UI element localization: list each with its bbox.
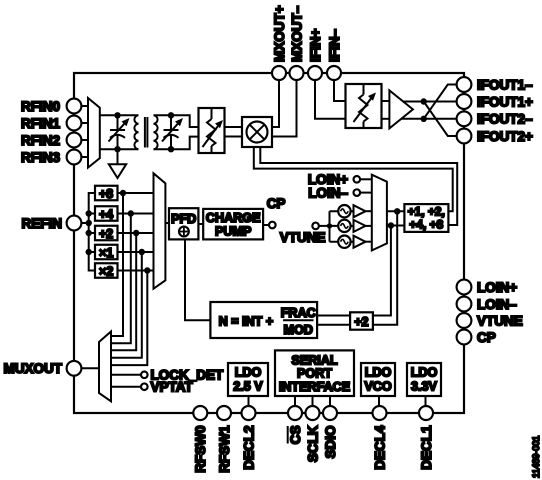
IF attenuator box bbox=[346, 84, 382, 128]
mux LO select bbox=[372, 175, 387, 251]
svg-text:CHARGE: CHARGE bbox=[206, 211, 261, 225]
svg-text:IFOUT2+: IFOUT2+ bbox=[477, 129, 533, 144]
wire PFD to CP bbox=[198, 223, 203, 225]
svg-text:RFIN2: RFIN2 bbox=[21, 133, 60, 148]
node div4 out bbox=[128, 210, 134, 216]
svg-text:RFIN3: RFIN3 bbox=[21, 150, 60, 165]
svg-text:DECL4: DECL4 bbox=[372, 425, 387, 470]
transformer T1 bbox=[134, 115, 157, 149]
divider ref /8 box bbox=[95, 186, 118, 201]
pin IFOUT1- bbox=[457, 77, 533, 92]
wire x2 out bbox=[111, 271, 154, 366]
pin IFIN+ bbox=[308, 29, 323, 80]
svg-text:÷2: ÷2 bbox=[99, 227, 113, 241]
serial port interface box bbox=[275, 350, 354, 406]
svg-text:RFIN0: RFIN0 bbox=[21, 99, 60, 114]
wire MXOUT- to mixer output bbox=[272, 80, 297, 137]
pin IFOUT2+ bbox=[457, 129, 533, 144]
oscillator VCO1 bbox=[338, 205, 350, 217]
chip boundary bbox=[74, 73, 464, 413]
wire REFIN stub div2 bbox=[89, 232, 95, 234]
wire tank2 top rail bbox=[154, 115, 199, 127]
divider LO box bbox=[404, 204, 448, 232]
svg-text:LOIN–: LOIN– bbox=[308, 185, 348, 200]
svg-text:IFIN–: IFIN– bbox=[327, 29, 342, 62]
ground bbox=[109, 149, 126, 178]
pin DECL1 bbox=[419, 406, 434, 470]
mux MUXOUT select bbox=[99, 332, 111, 402]
pin RFIN0 bbox=[21, 99, 81, 114]
oscillator VCO2 bbox=[338, 220, 350, 232]
node bus div4 bbox=[86, 210, 92, 216]
svg-text:VTUNE: VTUNE bbox=[477, 313, 523, 328]
node CP internal bbox=[263, 196, 285, 228]
wire RFIN0 stub bbox=[81, 105, 88, 107]
wire cross to IFOUT1- bbox=[424, 85, 457, 119]
svg-text:VPTAT: VPTAT bbox=[151, 380, 194, 395]
oscillator VCO3 bbox=[338, 236, 350, 248]
node x1 out bbox=[139, 249, 145, 255]
wire IF att to amp lower bbox=[382, 118, 390, 120]
node LO out upper bbox=[394, 208, 400, 214]
node VTUNE junction bbox=[327, 223, 332, 228]
svg-text:PFD: PFD bbox=[171, 212, 196, 226]
svg-text:÷1, ÷2,: ÷1, ÷2, bbox=[408, 204, 445, 218]
svg-text:MOD: MOD bbox=[284, 323, 313, 337]
pin IFIN- bbox=[327, 29, 342, 80]
node VTUNE internal bbox=[280, 223, 330, 245]
wire REFIN stub div4 bbox=[89, 213, 95, 215]
node bus x1 bbox=[86, 249, 92, 255]
node div8 out bbox=[120, 190, 126, 196]
wire attenuator to mixer lower bbox=[225, 136, 243, 138]
node LOCK_DET bbox=[111, 368, 224, 383]
node LOIN- internal bbox=[308, 185, 372, 200]
svg-text:RFSW1: RFSW1 bbox=[217, 425, 232, 473]
svg-text:PUMP: PUMP bbox=[215, 224, 251, 238]
wire REFIN bus bbox=[89, 193, 95, 271]
wire tank1 top rail bbox=[100, 114, 139, 116]
divider ref /2 box bbox=[95, 226, 118, 241]
svg-text:÷4: ÷4 bbox=[99, 207, 113, 221]
pin LOIN+ right bbox=[457, 280, 518, 295]
pin RFIN3 bbox=[21, 150, 81, 165]
LDO 2.5V box bbox=[228, 363, 268, 406]
pin RFSW0 bbox=[193, 406, 208, 473]
wire VTUNE bus bbox=[329, 211, 331, 242]
svg-text:IFOUT1–: IFOUT1– bbox=[477, 77, 533, 92]
wire attenuator to mixer upper bbox=[225, 126, 243, 128]
svg-text:SDIO: SDIO bbox=[323, 426, 338, 459]
svg-text:2.5 V: 2.5 V bbox=[233, 380, 263, 394]
pin SDIO bbox=[323, 406, 338, 459]
wire to div2 upper bbox=[373, 211, 397, 324]
node tank2 top bbox=[168, 112, 174, 118]
node VPTAT bbox=[111, 380, 194, 395]
svg-text:SCLK: SCLK bbox=[305, 425, 320, 462]
wire div2 out bbox=[111, 233, 154, 350]
svg-text:×2: ×2 bbox=[99, 264, 113, 278]
amplifier A1 bbox=[389, 90, 413, 128]
svg-text:3.3V: 3.3V bbox=[411, 380, 438, 394]
wire to div2 lower bbox=[373, 226, 391, 316]
N divider box bbox=[210, 302, 317, 338]
buffer B3 bbox=[351, 236, 372, 248]
varactor C2 tank2 bbox=[162, 115, 183, 149]
svg-text:DECL1: DECL1 bbox=[419, 425, 434, 470]
svg-text:N = INT +: N = INT + bbox=[219, 314, 274, 328]
svg-text:SERIAL: SERIAL bbox=[291, 353, 337, 367]
svg-text:IFIN+: IFIN+ bbox=[308, 29, 323, 62]
wire REFIN in bbox=[81, 222, 89, 224]
wire RFIN1 stub bbox=[81, 122, 88, 124]
svg-text:CP: CP bbox=[267, 196, 286, 211]
wire div2 to N upper bbox=[317, 315, 350, 317]
node x2 out bbox=[144, 267, 150, 273]
svg-text:MXOUT–: MXOUT– bbox=[289, 5, 304, 62]
wire mixer LO outer bbox=[254, 147, 453, 211]
pin CP right bbox=[457, 330, 496, 345]
node LO out lower bbox=[388, 222, 394, 228]
pin RFIN1 bbox=[21, 116, 81, 131]
node bus refin bbox=[86, 220, 92, 226]
wire amp out lower bbox=[402, 118, 458, 120]
svg-text:PORT: PORT bbox=[297, 367, 332, 381]
pin DECL4 bbox=[372, 406, 387, 470]
pin LOIN- right bbox=[457, 297, 518, 312]
node tank2 bottom bbox=[168, 146, 174, 152]
varactor C1 tank1 bbox=[109, 115, 130, 149]
wire REF mux to PFD bbox=[165, 222, 169, 224]
RF attenuator box bbox=[199, 108, 225, 153]
divider ref /4 box bbox=[95, 206, 118, 221]
buffer B1 bbox=[351, 205, 372, 217]
svg-text:LOIN–: LOIN– bbox=[477, 297, 517, 312]
svg-text:INTERFACE: INTERFACE bbox=[279, 380, 350, 394]
wire div4 out bbox=[111, 214, 154, 344]
wire IFIN+ to IF attenuator bbox=[315, 80, 346, 119]
node bus div2 bbox=[86, 230, 92, 236]
wire RFIN3 stub bbox=[81, 156, 88, 158]
pin IFOUT2- bbox=[457, 111, 533, 126]
svg-text:REFIN: REFIN bbox=[22, 216, 63, 231]
mux REF select bbox=[154, 173, 166, 288]
wire MXOUT+ to mixer output bbox=[272, 80, 279, 127]
divider div2 box bbox=[350, 312, 373, 329]
svg-text:MXOUT+: MXOUT+ bbox=[272, 5, 287, 62]
pin MXOUT+ bbox=[272, 5, 287, 80]
wire LO mux out lower bbox=[387, 225, 405, 227]
svg-text:÷8: ÷8 bbox=[99, 187, 113, 201]
svg-text:11489-001: 11489-001 bbox=[531, 436, 541, 478]
wire N feedback to PFD bbox=[185, 239, 210, 320]
mixer U1 bbox=[242, 117, 272, 147]
svg-text:IFOUT1+: IFOUT1+ bbox=[477, 94, 533, 109]
wire IF att to amp upper bbox=[382, 100, 390, 102]
wire RFIN2 stub bbox=[81, 139, 88, 141]
svg-text:MUXOUT: MUXOUT bbox=[4, 361, 63, 376]
svg-text:×1: ×1 bbox=[99, 246, 113, 260]
node tank1 bottom bbox=[114, 146, 120, 152]
node LOIN+ internal bbox=[308, 172, 372, 187]
PFD box bbox=[169, 208, 198, 239]
pin SCLK bbox=[305, 406, 320, 462]
node amp out upper bbox=[421, 98, 427, 104]
pin CS bbox=[288, 406, 303, 444]
charge pump box bbox=[203, 209, 263, 240]
wire tank1 bottom rail bbox=[100, 148, 139, 150]
LDO 3.3V box bbox=[407, 363, 441, 406]
pin VTUNE right bbox=[457, 313, 523, 328]
svg-text:LDO: LDO bbox=[365, 365, 392, 379]
wire vco stubs bbox=[330, 211, 339, 242]
wire LO mux out upper bbox=[387, 210, 405, 212]
svg-text:DECL2: DECL2 bbox=[241, 426, 256, 470]
wire MUXOUT bbox=[81, 367, 99, 369]
wire IFIN- to IF attenuator bbox=[334, 80, 346, 101]
node amp out lower bbox=[421, 116, 427, 122]
svg-text:÷4, ÷8: ÷4, ÷8 bbox=[410, 218, 444, 232]
wire x1 out bbox=[111, 252, 154, 358]
svg-text:VTUNE: VTUNE bbox=[280, 230, 326, 245]
svg-text:VCO: VCO bbox=[364, 380, 391, 394]
wire tank2 bottom rail bbox=[154, 137, 199, 150]
node tank1 top bbox=[114, 112, 120, 118]
svg-text:RFSW0: RFSW0 bbox=[193, 426, 208, 473]
svg-text:FRAC: FRAC bbox=[281, 306, 316, 320]
wire REFIN stub x1 bbox=[89, 251, 95, 253]
LDO VCO box bbox=[361, 363, 395, 406]
pin RFSW1 bbox=[217, 406, 232, 473]
svg-text:LOIN+: LOIN+ bbox=[477, 280, 517, 295]
mux RF input select bbox=[88, 98, 100, 168]
pin MXOUT- bbox=[289, 5, 304, 80]
wire div2 to N lower bbox=[317, 324, 350, 326]
pin DECL2 bbox=[241, 406, 256, 470]
wire amp out upper bbox=[403, 101, 458, 103]
wire mixer LO inner bbox=[260, 147, 457, 225]
svg-text:RFIN1: RFIN1 bbox=[21, 116, 60, 131]
svg-text:CP: CP bbox=[477, 330, 496, 345]
pin IFOUT1+ bbox=[457, 94, 533, 109]
svg-text:CS: CS bbox=[288, 426, 303, 445]
node div2 out bbox=[133, 230, 139, 236]
pin REFIN bbox=[22, 216, 82, 231]
multiplier ref x2 box bbox=[95, 263, 118, 278]
wire cross to IFOUT2+ bbox=[424, 102, 457, 137]
svg-text:LDO: LDO bbox=[235, 365, 262, 379]
wire div8 out bbox=[111, 193, 154, 336]
pin MUXOUT bbox=[4, 361, 82, 376]
buffer B2 bbox=[351, 220, 372, 232]
svg-text:IFOUT2–: IFOUT2– bbox=[477, 112, 533, 127]
svg-text:LDO: LDO bbox=[411, 365, 438, 379]
pin RFIN2 bbox=[21, 133, 81, 148]
multiplier ref x1 box bbox=[95, 245, 118, 260]
svg-text:÷2: ÷2 bbox=[355, 315, 369, 329]
